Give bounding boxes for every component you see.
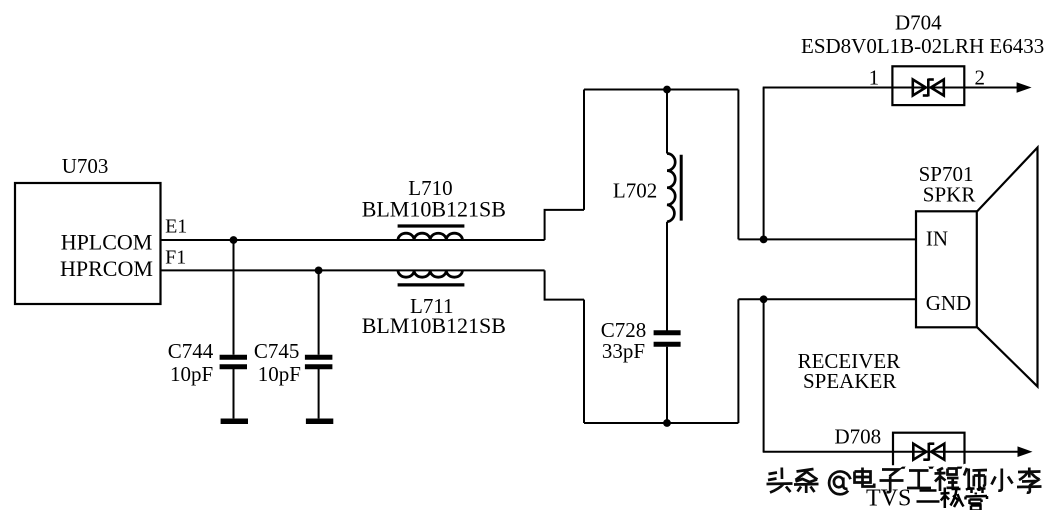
wire IN from bus to speaker — [738, 238, 916, 240]
ground bar of C745 — [306, 418, 333, 424]
wire to D704 pin 1 — [763, 87, 893, 89]
wire left bus lower — [583, 300, 585, 423]
inductor L702 coil — [667, 154, 675, 222]
ground bar of C744 — [221, 418, 248, 424]
label L711 — [410, 294, 454, 318]
arrow out of D704 — [1017, 82, 1032, 93]
IC U703 body — [15, 183, 161, 304]
label D704 — [895, 10, 942, 34]
wire from D704 pin 2 — [964, 87, 1018, 89]
capacitor C744 — [220, 240, 247, 418]
value 10pF (C744) — [170, 362, 213, 386]
ferrite bead L711 bar — [398, 283, 465, 286]
wire F1 from U703 through L711 — [161, 269, 545, 271]
svg-text:10pF: 10pF — [170, 362, 213, 386]
svg-text:F1: F1 — [165, 247, 186, 269]
wire E1 step up — [545, 210, 584, 240]
value ESD8V0L1B-02LRH E6433 — [801, 34, 1044, 58]
pin label E1 — [165, 215, 187, 237]
capacitor C728 — [654, 333, 681, 423]
svg-text:HPLCOM: HPLCOM — [61, 229, 153, 254]
arrow out of D708 — [1018, 446, 1033, 457]
pin number 1 (D704) — [869, 65, 880, 89]
junction node F1/C745 — [315, 267, 323, 275]
svg-text:D708: D708 — [835, 424, 882, 448]
wire L702 to C728 — [666, 222, 668, 331]
wire F1 step down — [545, 270, 584, 299]
svg-text:E1: E1 — [165, 215, 187, 237]
TVS diode D704 symbol — [913, 79, 944, 97]
label SPKR — [923, 183, 976, 207]
label L710 — [408, 176, 452, 200]
svg-text:C744: C744 — [168, 339, 214, 363]
wire D704 drop vertical — [763, 88, 765, 240]
svg-text:33pF: 33pF — [602, 339, 645, 363]
junction node bottom bus / C728 — [663, 419, 671, 427]
pin number 2 (D704) — [975, 65, 986, 89]
junction node top bus / L702 — [663, 86, 671, 94]
svg-text:L702: L702 — [613, 179, 657, 203]
pin name HPLCOM — [61, 229, 153, 254]
speaker SP701 cone — [977, 148, 1037, 387]
svg-text:IN: IN — [926, 227, 948, 251]
wire E1 from U703 through L710 — [161, 239, 545, 241]
value BLM10B121SB (L710) — [362, 197, 506, 222]
wire through D708 — [893, 451, 965, 453]
inductor L702 branch wire upper — [666, 90, 668, 154]
junction node E1/C744 — [230, 236, 238, 244]
TVS diode D704 box — [892, 66, 964, 105]
svg-text:TVS: TVS — [866, 486, 911, 510]
pin label F1 — [165, 247, 186, 269]
svg-text:2: 2 — [975, 65, 986, 89]
wire top bus — [584, 89, 738, 91]
pin name GND — [926, 291, 972, 315]
label U703 — [62, 154, 109, 178]
value 10pF (C745) — [258, 362, 301, 386]
pin name HPRCOM — [60, 256, 153, 281]
wire left bus upper — [583, 90, 585, 210]
ferrite bead L710 coil — [398, 233, 462, 240]
wire to D708 — [763, 451, 893, 453]
svg-text:GND: GND — [926, 291, 972, 315]
watermark 头条 @电子工程师小李 — [765, 466, 1042, 495]
label L702 — [613, 179, 657, 203]
svg-text:HPRCOM: HPRCOM — [60, 256, 153, 281]
svg-text:1: 1 — [869, 65, 880, 89]
svg-text:ESD8V0L1B-02LRH E6433: ESD8V0L1B-02LRH E6433 — [801, 34, 1044, 58]
ferrite bead L710 bar — [398, 224, 465, 227]
svg-text:SPEAKER: SPEAKER — [803, 369, 896, 393]
label SP701 — [919, 162, 974, 186]
wire right bus upper — [737, 90, 739, 240]
ferrite bead L711 coil — [398, 270, 462, 277]
label RECEIVER — [798, 349, 901, 373]
label C744 — [168, 339, 214, 363]
value 33pF — [602, 339, 645, 363]
wire GND from bus to speaker — [738, 298, 916, 300]
caption TVS 二极管 — [866, 486, 987, 510]
junction node IN / D704 drop — [760, 236, 768, 244]
pin name IN — [926, 227, 948, 251]
svg-text:10pF: 10pF — [258, 362, 301, 386]
wire right bus lower — [737, 299, 739, 423]
svg-text:SPKR: SPKR — [923, 183, 976, 207]
inductor L702 core bar — [680, 155, 683, 221]
svg-text:BLM10B121SB: BLM10B121SB — [362, 313, 506, 338]
svg-text:D704: D704 — [895, 10, 942, 34]
value BLM10B121SB (L711) — [362, 313, 506, 338]
svg-text:C745: C745 — [254, 339, 300, 363]
label C728 — [601, 318, 647, 342]
TVS diode D708 symbol — [913, 443, 944, 461]
label SPEAKER — [803, 369, 896, 393]
junction node GND / D708 drop — [760, 295, 768, 303]
wire from D708 — [965, 451, 1019, 453]
speaker SP701 body — [916, 211, 977, 327]
svg-text:U703: U703 — [62, 154, 109, 178]
label C745 — [254, 339, 300, 363]
capacitor C745 — [305, 270, 333, 418]
label D708 — [835, 424, 882, 448]
wire D708 drop vertical — [763, 299, 765, 451]
svg-text:BLM10B121SB: BLM10B121SB — [362, 197, 506, 222]
wire through D704 — [892, 87, 964, 89]
TVS diode D708 box — [893, 433, 965, 468]
wire bottom bus — [584, 422, 738, 424]
